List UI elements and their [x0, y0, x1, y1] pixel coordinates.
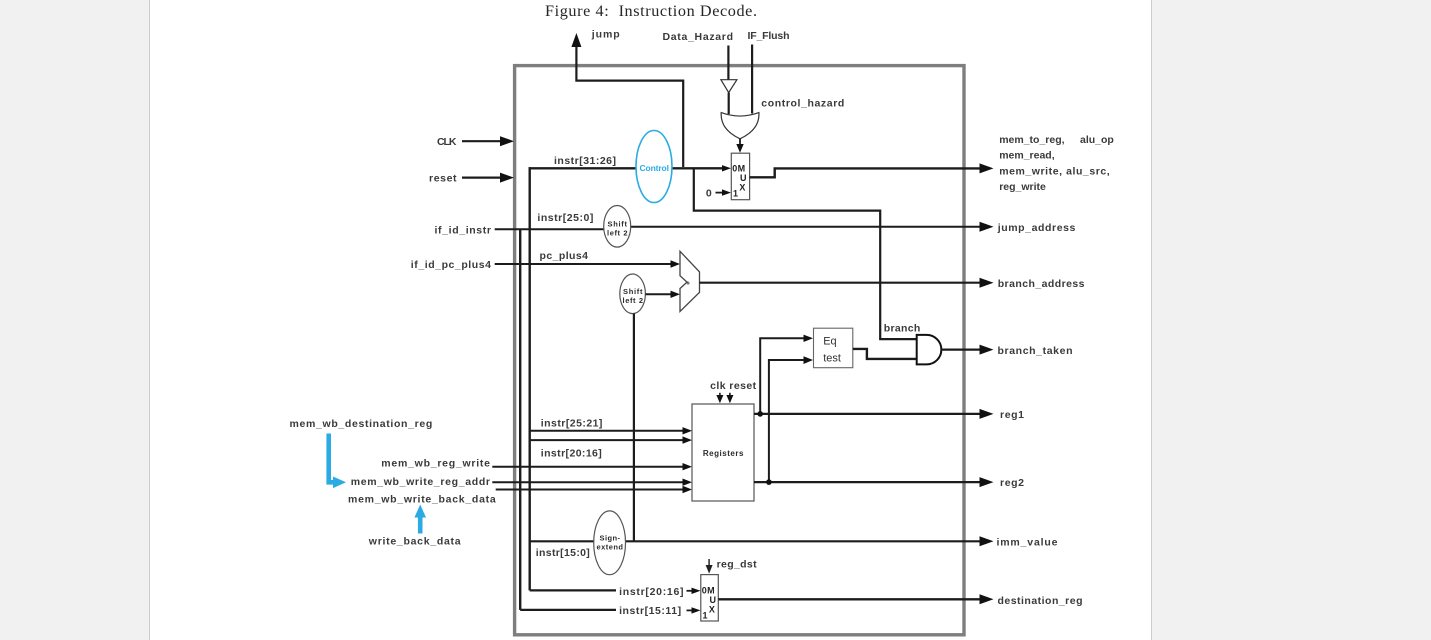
svg-text:instr[15:0]: instr[15:0] [536, 547, 590, 559]
adder U5 (branch address ALU shape) [680, 251, 700, 311]
svg-text:clk reset: clk reset [710, 380, 757, 392]
svg-text:instr[20:16]: instr[20:16] [541, 448, 602, 460]
junction dot reg1 [757, 411, 763, 417]
cyan callout arrow from mem_wb_destination_reg to mem_wb_write_reg_addr [329, 434, 346, 489]
wire Eq test output to AND gate [853, 349, 917, 359]
svg-text:Sign-: Sign- [600, 534, 621, 543]
wire branch-control vertical drop from control output line [694, 168, 917, 339]
svg-text:Figure 4: Instruction Decode.: Figure 4: Instruction Decode. [545, 2, 757, 20]
svg-text:mem_write, alu_src,: mem_write, alu_src, [999, 165, 1110, 177]
junction dot reg2 [766, 479, 772, 485]
svg-text:mem_read,: mem_read, [999, 150, 1055, 162]
AND gate U7 (branch_taken) [917, 335, 942, 365]
svg-text:control_hazard: control_hazard [761, 98, 844, 110]
svg-text:1: 1 [733, 188, 738, 198]
svg-text:mem_wb_reg_write: mem_wb_reg_write [381, 457, 490, 469]
op Sign-extend oval U9 [594, 511, 626, 575]
wire instruction bus A vertical (x=520.2) [519, 229, 521, 610]
wire if_id_instr left segment [495, 228, 617, 230]
svg-text:1: 1 [703, 610, 708, 620]
svg-text:mem_wb_destination_reg: mem_wb_destination_reg [290, 418, 433, 430]
wire clk arrow into Registers [716, 393, 723, 404]
svg-text:mem_wb_write_back_data: mem_wb_write_back_data [348, 494, 496, 506]
svg-text:IF_Flush: IF_Flush [748, 30, 790, 42]
op shift-left-2 oval U3 (jump address) [604, 206, 631, 248]
svg-text:reset: reset [429, 173, 457, 185]
svg-text:0: 0 [706, 187, 712, 199]
OR gate (pointing down) [721, 113, 759, 139]
svg-text:Shift: Shift [608, 220, 628, 229]
svg-text:U: U [740, 173, 747, 183]
svg-text:Control: Control [640, 163, 670, 173]
svg-text:instr[20:16]: instr[20:16] [619, 586, 683, 598]
wire jump output (up arrow through border) [571, 33, 683, 167]
wire reg1 output with junction to output arrow [754, 409, 994, 419]
wire constant 0 arrow into mux U1 input 1 [716, 189, 732, 195]
wire imm_value line from bus through sign-extend to output arrow [530, 536, 994, 546]
op Control oval U2 (cyan) [636, 131, 672, 203]
op Eq test comparator U6 [814, 328, 853, 368]
svg-text:Registers: Registers [703, 449, 744, 458]
mux U10 body [701, 575, 719, 621]
wire Eq test input 1 from reg1 node [760, 335, 813, 414]
svg-text:if_id_instr: if_id_instr [435, 225, 492, 237]
svg-text:instr[25:0]: instr[25:0] [537, 212, 593, 224]
svg-text:instr[31:26]: instr[31:26] [554, 155, 616, 167]
wire arrow into mux U10 input 1 [687, 607, 701, 613]
wire if_id_pc_plus4 to adder input arrow [495, 260, 680, 267]
svg-text:branch_taken: branch_taken [998, 345, 1073, 357]
svg-text:mem_wb_write_reg_addr: mem_wb_write_reg_addr [351, 476, 490, 488]
wire shift-left-2 U4 output arrow into adder [645, 291, 680, 298]
svg-text:0: 0 [702, 585, 707, 595]
diagram outer border frame [515, 66, 964, 635]
wire reset arrow into Registers [726, 393, 733, 404]
svg-text:branch: branch [884, 323, 921, 335]
svg-text:CLK: CLK [437, 136, 457, 148]
svg-text:pc_plus4: pc_plus4 [540, 250, 589, 262]
svg-text:Data_Hazard: Data_Hazard [663, 31, 734, 43]
wire mem_wb_write_back_data into Registers [496, 486, 692, 493]
wire sign-extend output up to shift-left-2 U4 [633, 314, 635, 542]
wire reg_dst arrow into mux U10 [706, 559, 713, 574]
wire jump_address segment from shift-left-2 to output arrow [617, 222, 994, 232]
svg-text:reg2: reg2 [1000, 477, 1024, 489]
wire arrow into mux U10 input 0 [687, 588, 701, 594]
wire branch_taken output arrow [941, 345, 993, 355]
svg-text:jump: jump [591, 29, 620, 41]
svg-text:reg1: reg1 [1000, 409, 1024, 421]
wire destination_reg output arrow [718, 594, 993, 604]
op Registers file U8 [692, 404, 754, 501]
svg-text:left 2: left 2 [607, 229, 628, 238]
wire instruction bus B vertical (x=529.7) [529, 167, 531, 590]
wire reset input arrow [462, 173, 514, 183]
mux U1 body [731, 153, 749, 200]
wire branch_address output from adder [700, 278, 994, 288]
svg-text:if_id_pc_plus4: if_id_pc_plus4 [411, 259, 491, 271]
svg-text:instr[15:11]: instr[15:11] [619, 605, 681, 617]
wire Data_Hazard vertical input [727, 46, 729, 80]
svg-text:Eq: Eq [823, 336, 836, 348]
svg-text:X: X [709, 605, 715, 615]
svg-text:+: + [686, 281, 690, 288]
svg-text:reg_dst: reg_dst [717, 559, 758, 571]
wire instr[15:11] from bus A to mux U10 input 1 [520, 609, 616, 611]
wire instr[31:26] from bus to mux U1 input 0 (passes under Control oval) [529, 165, 731, 171]
svg-text:alu_op: alu_op [1080, 134, 1114, 146]
svg-text:destination_reg: destination_reg [998, 595, 1083, 607]
wire instr[25:21] into Registers read port 1 [530, 427, 692, 434]
svg-text:write_back_data: write_back_data [368, 536, 461, 548]
svg-text:M: M [707, 585, 715, 595]
svg-text:M: M [738, 163, 746, 173]
svg-text:test: test [823, 353, 841, 365]
svg-text:0: 0 [732, 163, 737, 173]
svg-text:jump_address: jump_address [997, 222, 1076, 234]
svg-text:extend: extend [597, 543, 624, 552]
wire instr[20:16] lower branch to mux U10 input 0 [530, 589, 616, 591]
wire OR gate output arrow into mux U1 [736, 139, 743, 153]
svg-text:U: U [710, 595, 717, 605]
svg-text:instr[25:21]: instr[25:21] [541, 417, 603, 429]
wire Eq test input 2 from reg2 node [769, 356, 813, 482]
svg-text:Shift: Shift [623, 287, 643, 296]
wire CLK input arrow [462, 136, 514, 146]
svg-text:branch_address: branch_address [998, 278, 1085, 290]
svg-text:X: X [739, 183, 745, 193]
svg-text:left 2: left 2 [623, 296, 644, 305]
svg-text:mem_to_reg,: mem_to_reg, [999, 134, 1064, 146]
wire inverter output to OR gate [728, 93, 730, 114]
wire instr[20:16] into Registers read port 2 [530, 436, 692, 443]
wire reg2 output with junction to output arrow [754, 477, 994, 487]
wire IF_Flush vertical input [751, 45, 753, 114]
wire mux U1 output to control signals output arrow [750, 163, 994, 177]
svg-text:reg_write: reg_write [999, 181, 1046, 193]
op shift-left-2 oval U4 (branch offset) [620, 274, 646, 314]
wire mem_wb_reg_write into Registers [492, 463, 692, 470]
svg-text:imm_value: imm_value [997, 537, 1058, 549]
cyan callout arrow from write_back_data up to mem_wb_write_back_data [414, 505, 426, 534]
inverter on Data_Hazard line [721, 80, 737, 93]
wire mem_wb_write_reg_addr into Registers [492, 479, 692, 486]
